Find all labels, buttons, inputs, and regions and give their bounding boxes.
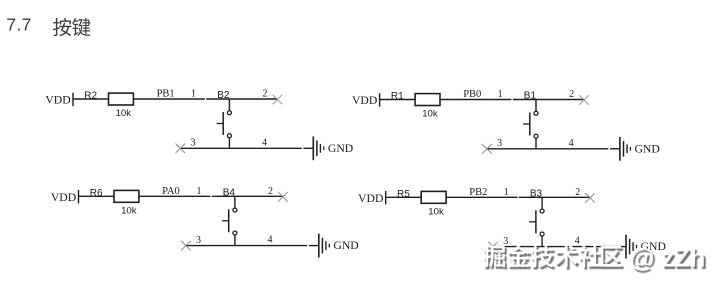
svg-text:PB1: PB1 bbox=[157, 89, 175, 100]
svg-text:1: 1 bbox=[191, 89, 196, 100]
svg-text:GND: GND bbox=[333, 239, 358, 252]
svg-text:B3: B3 bbox=[530, 188, 543, 199]
svg-text:1: 1 bbox=[197, 186, 202, 197]
svg-text:3: 3 bbox=[503, 236, 508, 247]
svg-text:R6: R6 bbox=[90, 188, 103, 199]
svg-text:2: 2 bbox=[575, 187, 580, 198]
svg-text:PB2: PB2 bbox=[469, 187, 487, 198]
svg-text:10k: 10k bbox=[428, 206, 444, 217]
svg-text:7.7: 7.7 bbox=[6, 15, 31, 35]
svg-text:10k: 10k bbox=[121, 205, 137, 216]
svg-text:10k: 10k bbox=[116, 108, 132, 119]
svg-text:1: 1 bbox=[498, 89, 503, 100]
svg-text:4: 4 bbox=[262, 137, 267, 148]
svg-text:GND: GND bbox=[328, 142, 353, 155]
svg-text:2: 2 bbox=[263, 89, 268, 100]
svg-text:3: 3 bbox=[196, 235, 201, 246]
svg-text:2: 2 bbox=[569, 89, 574, 100]
svg-text:B1: B1 bbox=[524, 91, 537, 102]
svg-text:R2: R2 bbox=[84, 91, 97, 102]
svg-text:3: 3 bbox=[191, 138, 196, 149]
svg-text:VDD: VDD bbox=[352, 94, 377, 107]
svg-text:PB0: PB0 bbox=[463, 89, 481, 100]
svg-text:B2: B2 bbox=[217, 90, 230, 101]
svg-text:VDD: VDD bbox=[358, 192, 383, 205]
svg-text:VDD: VDD bbox=[51, 191, 76, 204]
svg-text:4: 4 bbox=[575, 236, 580, 247]
svg-text:VDD: VDD bbox=[45, 94, 70, 107]
svg-text:2: 2 bbox=[268, 186, 273, 197]
svg-text:R5: R5 bbox=[397, 189, 410, 200]
svg-text:1: 1 bbox=[504, 187, 509, 198]
svg-text:3: 3 bbox=[497, 138, 502, 149]
svg-text:4: 4 bbox=[569, 138, 574, 149]
svg-text:@ zZh: @ zZh bbox=[630, 245, 706, 273]
svg-text:10k: 10k bbox=[422, 109, 438, 120]
svg-text:4: 4 bbox=[268, 235, 273, 246]
svg-text:B4: B4 bbox=[223, 187, 236, 198]
svg-text:GND: GND bbox=[635, 142, 660, 155]
svg-text:PA0: PA0 bbox=[162, 186, 180, 197]
svg-text:R1: R1 bbox=[391, 91, 404, 102]
